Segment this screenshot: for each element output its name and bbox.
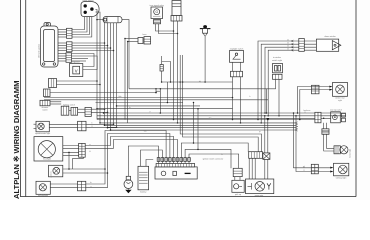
left margin rule [20, 0, 22, 197]
wire grid verticals [156, 82, 167, 113]
tail stop lamp right [334, 163, 349, 176]
speedometer lamp [36, 121, 49, 132]
wire pin3 to tail connector [86, 131, 166, 185]
svg-text:ignition switch connector: ignition switch connector [203, 157, 224, 160]
wire pin7 to generator [181, 143, 248, 158]
wire E to F [78, 109, 85, 112]
alarm winker horn [316, 39, 340, 51]
wire tail right [293, 112, 330, 171]
wire horn feeds down [125, 39, 128, 123]
connector headlight [79, 143, 86, 157]
svg-text:w/g: w/g [144, 131, 147, 133]
wire position lamp [63, 168, 108, 174]
svg-text:battery: battery [140, 190, 146, 193]
main switch pin connectors [157, 158, 190, 162]
wire horn 4 [267, 50, 316, 116]
svg-text:to winker: to winker [273, 56, 281, 59]
svg-text:switch right: switch right [272, 59, 282, 62]
svg-text:right: right [338, 99, 342, 102]
ground symbol [125, 189, 131, 194]
junction dots grid [96, 92, 168, 131]
svg-text:main switch: main switch [83, 0, 95, 2]
wire switch B [50, 92, 157, 94]
diagram bottom border [21, 196, 357, 198]
wire flasher down [156, 24, 179, 34]
resistor comp small [160, 65, 163, 72]
pilot bulb [124, 176, 133, 188]
connector alarm winker [299, 39, 305, 52]
wire rectifier [264, 115, 269, 179]
main switch box [155, 167, 197, 179]
wire pin4 to tail connector [86, 134, 170, 188]
svg-text:stoplight switch: stoplight switch [230, 47, 244, 50]
wire brake switch [232, 62, 242, 123]
junction dots CDI rows [104, 42, 115, 51]
switch E box [71, 107, 78, 115]
svg-text:V: V [75, 69, 78, 74]
ignition coil [172, 1, 181, 16]
wire long rows under switch B [44, 97, 268, 100]
horn wire labels [287, 39, 289, 50]
svg-text:position: position [50, 172, 53, 178]
spark plug [200, 25, 211, 36]
switch D box [61, 106, 69, 115]
svg-text:lb: lb [221, 154, 222, 156]
connector hatch small [322, 129, 329, 135]
switch C box [40, 100, 50, 106]
wire pin8 to pickup [185, 149, 231, 168]
brake light switch [230, 51, 244, 63]
wire battery right terminal [146, 160, 153, 167]
svg-text:pick up: pick up [235, 194, 242, 196]
wire pin5 to headlight [85, 137, 174, 158]
wire mid vertical A [193, 102, 195, 144]
svg-text:g: g [304, 170, 305, 172]
wire right column [266, 79, 280, 116]
wire tail lamp [50, 184, 77, 188]
wire horn 2 [260, 44, 316, 123]
svg-text:b/y: b/y [199, 81, 201, 83]
rear switch box [331, 112, 341, 123]
rear switch bracket [341, 113, 345, 121]
svg-text:g: g [92, 126, 93, 128]
wire bus y82 [162, 81, 233, 83]
horn wire tick marks [291, 40, 293, 51]
wire ign-sw to CDI rows [72, 17, 92, 37]
connector CDI block 1 [67, 28, 73, 38]
wire speedo right [86, 124, 117, 129]
svg-text:lighting switch: lighting switch [63, 103, 75, 106]
tail lamp left [36, 181, 50, 194]
wire rear lamp [297, 87, 330, 121]
wire mid vertical B [197, 108, 199, 150]
arrows into tail lamp [330, 167, 333, 173]
switch B box [44, 89, 51, 97]
svg-text:generator: generator [255, 194, 264, 197]
license lamp [334, 146, 348, 154]
wire grid horizontals [96, 91, 347, 130]
connector generator [249, 152, 263, 159]
svg-text:horn: horn [142, 34, 146, 36]
main switch pins [159, 161, 190, 163]
connector F [85, 107, 91, 116]
speedo lamp stubs [34, 124, 37, 128]
wire switch C [50, 102, 61, 104]
wire end arrows mid right [295, 122, 298, 131]
arrows into rear lamp [329, 86, 332, 91]
svg-text:tail/stop light: tail/stop light [336, 176, 347, 179]
connector tail right [311, 164, 318, 174]
connector right column [273, 74, 283, 79]
wire pin2 to battery [141, 150, 163, 166]
wire horn [124, 38, 138, 43]
rectifier plug X [263, 153, 270, 160]
wire pin9 to pickup [189, 154, 239, 168]
pick-up coil [232, 180, 244, 192]
switch right column box [273, 64, 283, 73]
wire fuse right [122, 20, 129, 89]
wire headlight connector stub [73, 157, 84, 169]
switch A box [49, 79, 57, 88]
winker lamp rear right [333, 83, 348, 97]
fuse F1 [103, 17, 122, 23]
CDI pin comb [58, 30, 67, 62]
connector ignition switch plug [81, 2, 99, 17]
wire CDI rows to regulator loop [72, 54, 97, 70]
svg-text:license light: license light [348, 149, 351, 158]
wire position to headlight row [68, 152, 70, 170]
svg-text:regulator: regulator [72, 61, 80, 64]
regulator rectifier box [70, 64, 83, 77]
wire bus y88 [129, 88, 267, 90]
horn [138, 37, 151, 44]
connector rear bundle [315, 112, 321, 123]
svg-text:b: b [250, 96, 251, 98]
connector flasher [154, 20, 161, 24]
wire pick-up [235, 177, 240, 181]
diagram left border [25, 0, 27, 197]
svg-text:switch: switch [42, 109, 48, 112]
wire pin6 to headlight [85, 140, 177, 158]
wire fuse left [96, 19, 103, 21]
position lamp [49, 165, 63, 177]
diagram right border [355, 0, 357, 197]
connector rear lamp [312, 85, 320, 94]
generator [246, 179, 274, 194]
connector brake switch [231, 71, 243, 77]
connector speedo [78, 121, 86, 131]
wire code labels scatter [97, 81, 306, 156]
svg-text:g: g [305, 112, 306, 114]
wire pulse loop [161, 56, 171, 83]
wire headlight [63, 146, 85, 156]
wire horn 3 [264, 47, 316, 114]
connector tail lamp [78, 181, 86, 191]
svg-text:speedometer light: speedometer light [35, 132, 51, 135]
svg-text:tail/stoplight: tail/stoplight [38, 194, 48, 197]
wire fuse outputs [105, 23, 117, 130]
svg-text:CDI unit ignition: CDI unit ignition [38, 44, 41, 58]
wire switch A [57, 80, 101, 85]
svg-text:b: b [92, 123, 93, 125]
wire D to E [69, 110, 71, 112]
connector coil [171, 16, 182, 22]
connector pick-up [233, 168, 242, 176]
wire horn 1 [257, 41, 316, 120]
wire hatch box [323, 118, 334, 151]
wire coil down [173, 21, 179, 124]
svg-text:ALTPLAN ※ WIRING DIAGRAMM: ALTPLAN ※ WIRING DIAGRAMM [12, 81, 21, 199]
connector CDI block 2 [67, 42, 73, 52]
svg-text:headlight: headlight [43, 158, 52, 161]
battery [138, 166, 149, 190]
CDI unit body [41, 23, 59, 67]
svg-text:g: g [91, 186, 92, 188]
headlight [34, 137, 63, 161]
wire F right [91, 108, 108, 113]
svg-text:g: g [97, 95, 98, 97]
flasher relay G [151, 7, 163, 19]
connector CDI block 3 [66, 53, 72, 63]
wire pin1 to pilot bulb [128, 146, 158, 176]
wire ign-sw right feeds [95, 10, 100, 123]
svg-text:rear stop switch: rear stop switch [330, 108, 342, 111]
wire CDI rows to fuse verticals [72, 43, 114, 51]
svg-text:turn signal relay: turn signal relay [150, 4, 164, 7]
wire verticals 180 [180, 55, 261, 152]
main switch top strip [156, 164, 195, 167]
wire speedo lamp [49, 124, 77, 127]
wire spark plug [204, 36, 206, 83]
svg-text:alarm winker: alarm winker [324, 36, 336, 38]
svg-text:g/y: g/y [303, 166, 305, 168]
wire generator up [249, 158, 255, 179]
